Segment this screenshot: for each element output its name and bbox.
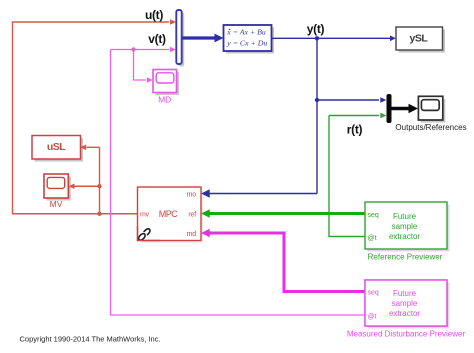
svg-text:uSL: uSL: [47, 141, 66, 153]
svg-text:MPC: MPC: [159, 209, 179, 219]
svg-text:extractor: extractor: [389, 232, 420, 241]
svg-text:v(t): v(t): [148, 32, 166, 46]
svg-text:sample: sample: [392, 299, 418, 308]
svg-text:MD: MD: [158, 95, 171, 105]
svg-text:md: md: [187, 231, 197, 238]
svg-text:mo: mo: [187, 192, 197, 199]
svg-text:@t: @t: [368, 314, 377, 321]
svg-text:Future: Future: [393, 289, 417, 298]
svg-text:u(t): u(t): [145, 8, 163, 22]
svg-text:seq: seq: [368, 290, 379, 297]
svg-text:r(t): r(t): [347, 123, 363, 137]
svg-text:ref: ref: [188, 212, 196, 219]
svg-text:Copyright 1990-2014 The MathWo: Copyright 1990-2014 The MathWorks, Inc.: [20, 335, 161, 344]
svg-text:y = Cx + Du: y = Cx + Du: [226, 38, 267, 47]
svg-text:@t: @t: [368, 235, 377, 242]
svg-text:y(t): y(t): [307, 22, 325, 36]
svg-text:x = Ax + Bu: x = Ax + Bu: [226, 28, 266, 37]
svg-text:Measured Disturbance Previewer: Measured Disturbance Previewer: [347, 330, 466, 339]
svg-text:Future: Future: [393, 212, 417, 221]
svg-text:extractor: extractor: [389, 309, 420, 318]
svg-text:mv: mv: [140, 212, 150, 219]
svg-text:Outputs/References: Outputs/References: [395, 123, 466, 132]
svg-text:MV: MV: [50, 199, 63, 209]
svg-text:ySL: ySL: [410, 33, 429, 45]
svg-text:sample: sample: [392, 222, 418, 231]
svg-text:seq: seq: [368, 212, 379, 219]
svg-text:Reference Previewer: Reference Previewer: [368, 253, 443, 262]
